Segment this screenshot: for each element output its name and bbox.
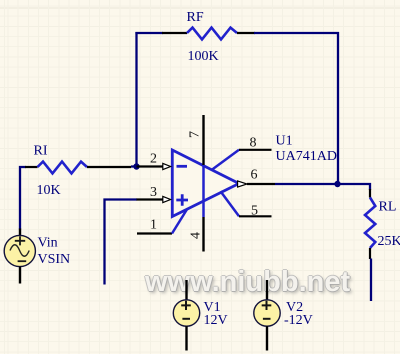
svg-text:RF: RF [187,10,204,25]
wire: Vin top to RI left [20,167,26,230]
source V1 [173,280,199,351]
svg-text:4: 4 [189,232,204,239]
pin 5 [221,191,272,216]
svg-text:U1: U1 [276,134,293,149]
source Vin (VSIN) [4,229,35,284]
wire: output to load [275,184,370,190]
wire: feedback right vertical [337,32,339,184]
svg-text:RI: RI [34,144,48,159]
wire: feedback top left [135,32,163,34]
svg-text:25K: 25K [378,234,400,249]
svg-text:1: 1 [150,218,157,233]
wire: feedback top right [254,32,339,34]
watermark [145,266,350,299]
svg-text:UA741AD: UA741AD [276,149,337,164]
svg-text:Vin: Vin [38,236,58,251]
wire: pin3 to lower stub [105,200,138,285]
svg-text:6: 6 [251,168,258,183]
svg-text:VSIN: VSIN [38,252,71,267]
pin 6 (output) [238,181,275,187]
pin 1 (offset null) [137,209,188,234]
wire: feedback left vertical [135,32,137,168]
resistor RF [162,28,255,40]
svg-text:2: 2 [150,152,157,167]
svg-text:10K: 10K [37,183,61,198]
svg-text:5: 5 [251,204,258,219]
svg-text:12V: 12V [204,313,228,328]
pin 7 (V+) [202,115,204,165]
wire: RI to inverting node [131,165,137,167]
resistor RI [25,162,131,174]
svg-text:8: 8 [250,136,257,151]
wire: RL bottom [370,259,372,302]
pin 8 [212,150,272,170]
svg-text:RL: RL [379,200,397,215]
svg-text:7: 7 [188,131,203,138]
junction: output node [334,181,340,187]
junction: inverting input node [133,163,139,169]
svg-text:3: 3 [150,185,157,200]
pin 3 (non-inverting input) [137,196,171,202]
source V2 [254,280,280,351]
pin 2 (inverting input) [137,163,171,169]
op-amp U1 [172,150,239,217]
pin 4 (V-) [202,217,204,252]
resistor RL [365,189,375,259]
svg-text:-12V: -12V [284,313,313,328]
svg-text:100K: 100K [188,49,219,64]
